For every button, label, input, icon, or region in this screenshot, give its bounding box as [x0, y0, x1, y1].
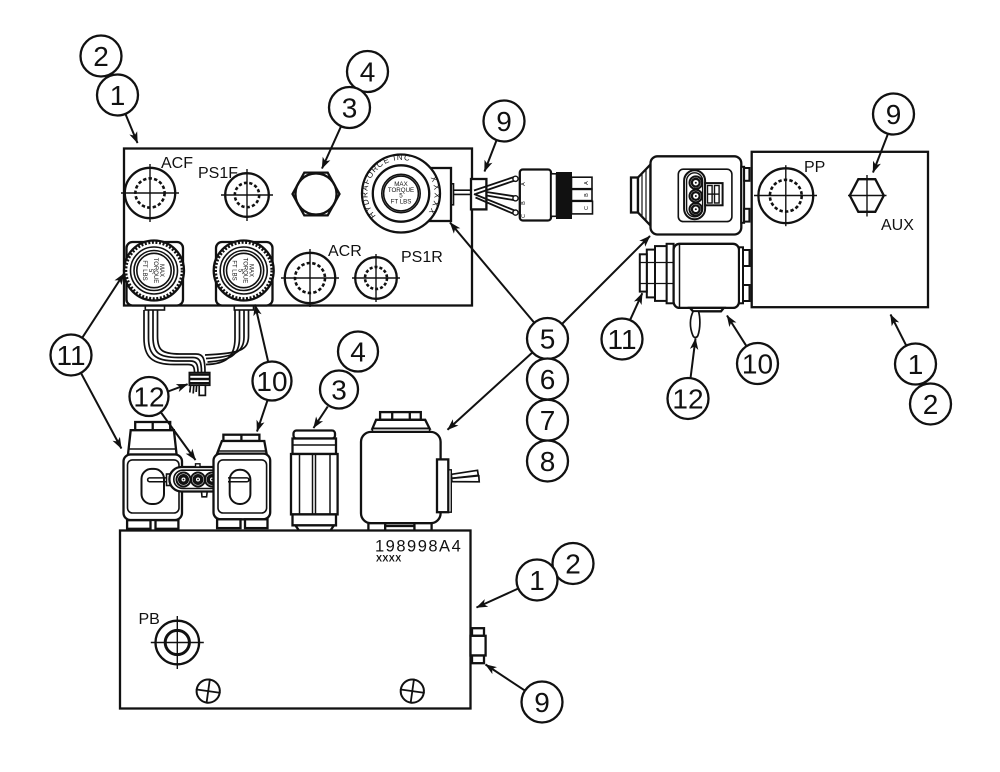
- callout 9c: [522, 682, 563, 723]
- svg-text:9: 9: [886, 99, 902, 130]
- svg-text:3: 3: [342, 93, 358, 124]
- callout 1b: [895, 344, 936, 385]
- leader 11R: [630, 293, 642, 320]
- svg-text:2: 2: [93, 41, 109, 72]
- leader 3b: [314, 407, 328, 428]
- port ACR: [281, 249, 339, 307]
- svg-text:A: A: [584, 181, 590, 185]
- callout 11L: [51, 335, 92, 376]
- callout 7: [527, 400, 568, 441]
- svg-text:FT LBS: FT LBS: [391, 199, 412, 206]
- svg-text:PS1R: PS1R: [401, 249, 443, 266]
- solenoid A (item 11): [124, 422, 183, 529]
- callout 3a: [329, 87, 370, 128]
- pigtail wire (item 12): [690, 311, 699, 337]
- callout 5: [527, 318, 568, 359]
- callout 1a: [97, 75, 138, 116]
- callout 6: [527, 359, 568, 400]
- svg-text:C: C: [521, 214, 527, 218]
- wire pair from coil L: [144, 310, 195, 373]
- svg-text:7: 7: [540, 405, 556, 436]
- svg-text:9: 9: [534, 687, 550, 718]
- svg-text:10: 10: [742, 349, 773, 380]
- svg-text:C: C: [584, 206, 590, 210]
- callout 3b: [320, 371, 358, 409]
- svg-text:FT LBS: FT LBS: [231, 260, 237, 280]
- callout 2c: [553, 543, 594, 584]
- svg-text:1: 1: [908, 349, 924, 380]
- wire plug (item 12 target): [189, 373, 209, 396]
- leaders 11L: [82, 274, 124, 338]
- callout 10L: [253, 362, 292, 401]
- leaders 12L: [168, 384, 188, 391]
- leader 9b: [873, 133, 889, 173]
- callout 12L: [130, 377, 169, 416]
- svg-text:1: 1: [529, 565, 545, 596]
- valve body behind knob: [430, 168, 451, 221]
- pigtail on square coil: [449, 470, 480, 512]
- port PP: [754, 165, 817, 226]
- svg-text:3: 3: [331, 375, 347, 406]
- svg-text:A: A: [521, 182, 527, 186]
- hex AUX (item 9 target): [848, 175, 887, 217]
- callout 2a: [81, 36, 122, 77]
- svg-text:B: B: [521, 201, 527, 205]
- svg-text:12: 12: [133, 382, 164, 413]
- stem bracket on block edge: [471, 179, 486, 209]
- coil R (knurled, on block): [214, 241, 274, 311]
- svg-text:1: 1: [110, 80, 126, 111]
- svg-text:ACR: ACR: [328, 243, 362, 260]
- callout 4a: [347, 51, 388, 92]
- svg-text:5: 5: [540, 324, 556, 355]
- coil L (knurled, on block): [124, 241, 184, 311]
- leader 3a: [322, 126, 341, 168]
- svg-text:PS1F: PS1F: [198, 165, 238, 182]
- manifold block body: [124, 149, 472, 306]
- hex plug item 3: [293, 173, 340, 216]
- knob curved text: [360, 153, 441, 223]
- svg-text:2: 2: [565, 549, 581, 580]
- callout 8: [527, 441, 568, 482]
- callout 10R: [737, 343, 778, 384]
- callout 1c: [517, 560, 558, 601]
- callout 9a: [484, 101, 525, 142]
- 3-pin connector (item 12): [167, 464, 230, 497]
- callout 2b: [910, 384, 951, 425]
- svg-text:B: B: [584, 193, 590, 197]
- leader 9a: [485, 140, 497, 171]
- svg-text:AUX: AUX: [881, 217, 914, 234]
- coil L torque text: [141, 258, 164, 284]
- wire pair from coil R: [206, 310, 235, 365]
- callout 12R: [668, 378, 709, 419]
- port PB: [151, 616, 204, 669]
- right flange of upper assembly: [741, 167, 749, 223]
- svg-text:XXXX: XXXX: [376, 554, 402, 564]
- svg-text:4: 4: [350, 337, 366, 368]
- svg-text:9: 9: [496, 106, 512, 137]
- svg-text:4: 4: [360, 57, 376, 88]
- svg-text:PB: PB: [139, 611, 160, 628]
- valve stem: [451, 184, 471, 205]
- svg-text:10: 10: [256, 366, 287, 397]
- svg-text:11: 11: [607, 324, 636, 355]
- screw L: [194, 677, 222, 705]
- leaders 5: [450, 223, 534, 323]
- svg-text:FT LBS: FT LBS: [141, 260, 147, 280]
- callout 9b: [873, 94, 914, 135]
- adjusting knob (HYDRAFORCE): [362, 155, 440, 233]
- svg-text:ACF: ACF: [161, 155, 193, 172]
- svg-text:8: 8: [540, 446, 556, 477]
- svg-text:11: 11: [56, 340, 85, 371]
- port ACF: [121, 164, 179, 222]
- leader 9c: [486, 665, 525, 691]
- svg-text:12: 12: [672, 384, 703, 415]
- coil R torque text: [231, 258, 254, 284]
- port PS1F: [221, 169, 273, 221]
- solenoid B (item 10): [214, 435, 271, 528]
- leader 10R: [727, 316, 747, 347]
- callout 11R: [602, 319, 643, 360]
- leaders 10L: [255, 305, 268, 362]
- leader 12R: [691, 339, 696, 379]
- screw R: [398, 677, 426, 705]
- svg-text:6: 6: [540, 364, 556, 395]
- svg-text:PP: PP: [804, 159, 825, 176]
- leader 1a: [125, 114, 137, 143]
- leader 1b: [891, 315, 907, 346]
- port PS1R: [352, 254, 400, 302]
- leader 1c: [477, 589, 519, 608]
- callout 4b: [338, 332, 378, 372]
- svg-text:2: 2: [923, 389, 939, 420]
- side plug (item 9) on bottom block: [471, 628, 486, 663]
